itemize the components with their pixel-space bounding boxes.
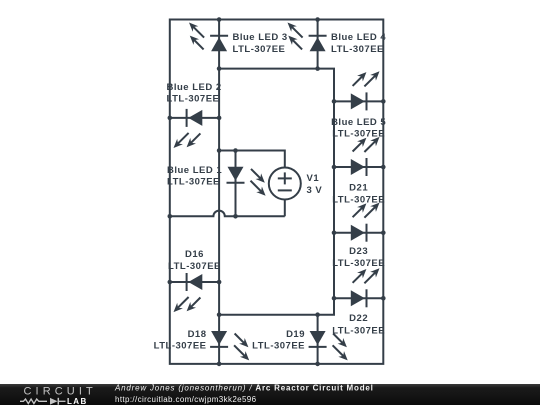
svg-text:D23: D23 xyxy=(349,246,368,257)
svg-text:LTL-307EE: LTL-307EE xyxy=(233,44,286,55)
svg-text:D19: D19 xyxy=(286,329,305,340)
svg-text:LTL-307EE: LTL-307EE xyxy=(167,93,220,104)
svg-text:LTL-307EE: LTL-307EE xyxy=(168,261,221,272)
svg-text:LTL-307EE: LTL-307EE xyxy=(332,258,385,269)
svg-text:LTL-307EE: LTL-307EE xyxy=(332,129,385,140)
svg-text:Blue LED 1: Blue LED 1 xyxy=(167,165,222,176)
svg-text:LTL-307EE: LTL-307EE xyxy=(167,177,220,188)
svg-text:LTL-307EE: LTL-307EE xyxy=(331,44,384,55)
svg-text:Blue LED 5: Blue LED 5 xyxy=(331,117,386,128)
svg-text:CIRCUIT: CIRCUIT xyxy=(24,385,97,397)
svg-text:LTL-307EE: LTL-307EE xyxy=(154,340,207,351)
svg-text:V1: V1 xyxy=(307,173,320,184)
svg-text:Blue LED 3: Blue LED 3 xyxy=(233,32,288,43)
svg-text:http://circuitlab.com/cwjpm3kk: http://circuitlab.com/cwjpm3kk2e596 xyxy=(115,395,257,404)
svg-text:LTL-307EE: LTL-307EE xyxy=(332,195,385,206)
svg-text:LAB: LAB xyxy=(67,397,88,405)
svg-text:D16: D16 xyxy=(185,249,204,260)
svg-text:D22: D22 xyxy=(349,313,368,324)
svg-text:LTL-307EE: LTL-307EE xyxy=(252,340,305,351)
svg-text:3 V: 3 V xyxy=(307,185,323,196)
svg-text:D21: D21 xyxy=(349,182,368,193)
svg-text:Blue LED 2: Blue LED 2 xyxy=(167,82,222,93)
svg-text:LTL-307EE: LTL-307EE xyxy=(332,325,385,336)
svg-text:Blue LED 4: Blue LED 4 xyxy=(331,32,386,43)
svg-text:D18: D18 xyxy=(188,329,207,340)
svg-text:Andrew Jones (jonesontherun) /: Andrew Jones (jonesontherun) / Arc React… xyxy=(114,384,374,393)
